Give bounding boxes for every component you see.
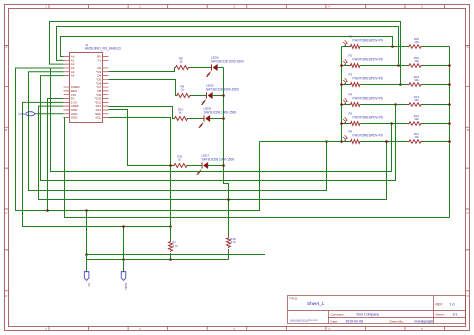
wire net A1 from R2 via top xyxy=(57,27,399,66)
wire 3.3V pin down to band line 7 xyxy=(23,102,171,226)
wire photoresistor left bus xyxy=(341,47,343,142)
svg-text:Your Company: Your Company xyxy=(356,313,379,317)
svg-text:Sheet:: Sheet: xyxy=(436,313,445,317)
svg-text:1.0: 1.0 xyxy=(450,302,455,306)
photoresistor R1 PHOTORESPDV-P9 xyxy=(343,34,383,48)
wire bus to R2 xyxy=(342,65,350,67)
svg-text:Company:: Company: xyxy=(331,313,345,317)
svg-text:Date:: Date: xyxy=(331,319,339,323)
wire R14 to right bus xyxy=(422,84,450,86)
wire bus to R5 xyxy=(342,123,350,125)
wire R11 to LED7 xyxy=(188,165,202,167)
wire net A0 from R1 via top xyxy=(61,37,393,57)
svg-text:1/1: 1/1 xyxy=(453,313,458,317)
wire R12 to right bus xyxy=(422,123,450,125)
svg-text:GND: GND xyxy=(124,283,128,291)
svg-text:C: C xyxy=(467,211,469,215)
svg-text:ARDUINO_R3_SHIELD: ARDUINO_R3_SHIELD xyxy=(85,47,122,51)
wire D5 to R9 xyxy=(109,80,177,96)
wire R6 to R17 xyxy=(361,141,408,143)
GND net flag xyxy=(19,112,35,116)
wire GND flag to pin xyxy=(35,113,64,115)
resistor R7 4.7k vertical xyxy=(169,164,179,259)
wire bus to R4 xyxy=(342,104,350,106)
svg-text:10k: 10k xyxy=(414,40,419,44)
svg-text:easyeda.com schematic: easyeda.com schematic xyxy=(290,318,319,322)
wire R16 to right bus xyxy=(422,46,450,48)
svg-text:B: B xyxy=(467,128,469,132)
wire 10k right bus xyxy=(449,47,451,218)
port GND xyxy=(121,272,128,291)
resistor R17 10k xyxy=(408,132,422,143)
wire net A2 from R3 via top xyxy=(50,22,401,85)
svg-text:SAY3UCD8 1000-1500: SAY3UCD8 1000-1500 xyxy=(202,157,235,161)
wire D3 to R8 xyxy=(109,68,175,72)
svg-text:B: B xyxy=(5,128,7,132)
wire 5V port riser xyxy=(86,211,88,272)
svg-text:PHOTORESPDV-P9: PHOTORESPDV-P9 xyxy=(353,76,383,80)
resistor R13 10k xyxy=(408,95,422,106)
svg-text:TITLE:: TITLE: xyxy=(289,297,298,301)
photoresistor R4 PHOTORESPDV-P9 xyxy=(343,92,383,106)
wire R4 to R13 xyxy=(361,104,408,106)
resistor R14 10k xyxy=(408,75,422,86)
svg-text:A: A xyxy=(5,45,7,49)
resistor R9 1k xyxy=(176,84,191,97)
wire net A5 via band line 2 to R4 xyxy=(41,76,396,181)
svg-text:Tx: Tx xyxy=(98,58,102,62)
svg-text:D: D xyxy=(5,294,7,298)
svg-text:PHOTORESPDV-P9: PHOTORESPDV-P9 xyxy=(353,38,383,42)
svg-text:5V: 5V xyxy=(87,283,91,287)
node sense tap R3 xyxy=(399,83,402,86)
svg-text:2019-02-08: 2019-02-08 xyxy=(346,319,363,323)
svg-text:Drawn By:: Drawn By: xyxy=(390,319,404,323)
wire R1 to R16 xyxy=(361,46,408,48)
wire row6 left extension xyxy=(260,141,342,143)
resistor R11 1k xyxy=(173,154,188,167)
svg-text:PHOTORESPDV-P9: PHOTORESPDV-P9 xyxy=(353,96,383,100)
wire GND port riser xyxy=(123,227,125,272)
resistor R10 1k xyxy=(174,107,189,120)
wire R9 to LED5 xyxy=(191,95,207,97)
wire SCL to R7 riser xyxy=(109,118,171,166)
port 5V xyxy=(84,272,91,287)
svg-text:10k: 10k xyxy=(414,78,419,82)
svg-text:10k: 10k xyxy=(414,98,419,102)
wire 5V rail xyxy=(87,254,266,256)
wire LED5 to cathode bus xyxy=(212,95,223,97)
svg-text:REV:: REV: xyxy=(436,302,443,306)
svg-text:SCL: SCL xyxy=(95,116,101,120)
photoresistor R2 PHOTORESPDV-P9 xyxy=(343,53,383,67)
wire D12 to R10 xyxy=(109,107,174,119)
connector J1 ARDUINO_R3_SHIELD xyxy=(64,53,109,123)
svg-text:4.7k: 4.7k xyxy=(230,240,236,244)
photoresistor R6 PHOTORESPDV-P9 xyxy=(343,129,383,143)
svg-text:SAY3UCD8 1000-1500: SAY3UCD8 1000-1500 xyxy=(204,110,237,114)
wire R17 to right bus xyxy=(422,141,450,143)
photoresistor R3 PHOTORESPDV-P9 xyxy=(343,72,383,86)
title block xyxy=(288,296,466,324)
wire R5 to R12 xyxy=(361,123,408,125)
wire R8 to LED6 xyxy=(190,67,212,69)
wire R10 to LED8 xyxy=(189,118,205,120)
svg-text:10k: 10k xyxy=(414,135,419,139)
node sense tap R5 xyxy=(390,122,393,125)
resistor R16 10k xyxy=(408,37,422,48)
wire net A4 via band line 3 to R6 left tap xyxy=(29,72,327,191)
svg-text:C: C xyxy=(5,211,7,215)
wire GND pin16 to GND bus line 6 xyxy=(64,118,450,218)
svg-text:4.7k: 4.7k xyxy=(172,244,178,248)
svg-text:GND: GND xyxy=(71,116,79,120)
wire LED8 to cathode bus xyxy=(210,118,224,120)
svg-text:10k: 10k xyxy=(414,117,419,121)
node sense tap R6 xyxy=(385,140,388,143)
wire outer-left vertical to band line 5 and row6 extension riser xyxy=(16,68,260,211)
svg-text:PHOTORESPDV-P9: PHOTORESPDV-P9 xyxy=(353,133,383,137)
svg-text:10k: 10k xyxy=(414,59,419,63)
LED LED6 xyxy=(206,64,217,76)
resistor R18 4.7k vertical xyxy=(227,237,237,260)
wire R2 to R15 xyxy=(361,65,408,67)
wire net A3 via band line 1 to R5 xyxy=(51,68,392,172)
svg-text:PHOTORESPDV-P9: PHOTORESPDV-P9 xyxy=(353,115,383,119)
svg-text:D: D xyxy=(467,294,469,298)
photoresistor R5 PHOTORESPDV-P9 xyxy=(343,111,383,125)
wire AREF pin down to band line 4 and R6 tap riser xyxy=(39,106,387,199)
resistor R8 1k xyxy=(175,56,190,69)
LED LED5 xyxy=(201,92,212,104)
wire GND rail xyxy=(87,259,229,261)
node sense tap R1 xyxy=(391,45,394,48)
svg-text:manalgargab: manalgargab xyxy=(415,319,434,323)
wire bus to R1 xyxy=(342,46,350,48)
wire bus to R6 xyxy=(342,141,350,143)
wire LED cathode bus with jog to R18 xyxy=(224,68,229,237)
LED LED8 xyxy=(199,115,210,127)
svg-text:SAY3UCD8 1000-1500: SAY3UCD8 1000-1500 xyxy=(211,59,244,63)
svg-text:A5: A5 xyxy=(71,74,75,78)
resistor R12 10k xyxy=(408,114,422,125)
resistor R15 10k xyxy=(408,56,422,67)
svg-text:PHOTORESPDV-P9: PHOTORESPDV-P9 xyxy=(353,57,383,61)
wire R3 to R14 xyxy=(361,84,408,86)
svg-text:SAY3UCD8 1000-1500: SAY3UCD8 1000-1500 xyxy=(206,87,239,91)
svg-text:GND: GND xyxy=(19,112,27,116)
wire 5V pin down to band line 5 xyxy=(48,99,64,211)
node sense tap R4 xyxy=(394,103,397,106)
svg-text:A: A xyxy=(467,45,469,49)
wire LED7 to cathode bus xyxy=(208,165,224,167)
wire R15 to right bus xyxy=(422,65,450,67)
node sense tap R2 xyxy=(397,64,400,67)
wire D13 to R11 xyxy=(109,110,174,166)
wire R13 to right bus xyxy=(422,104,450,106)
wire LED6 to cathode bus xyxy=(217,67,223,69)
wire bus to R3 xyxy=(342,84,350,86)
LED LED7 xyxy=(197,162,208,174)
svg-text:Sheet_1: Sheet_1 xyxy=(307,301,325,306)
